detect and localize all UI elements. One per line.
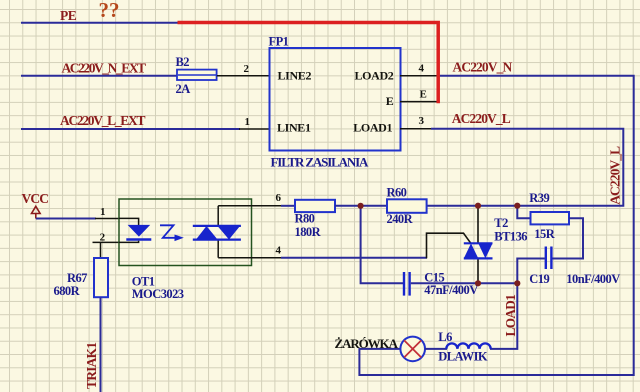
wire R80/R60 junction down to C15 (361, 206, 403, 283)
svg-text:AC220V_L_EXT: AC220V_L_EXT (60, 113, 145, 128)
wire AC220V_L (427, 129, 624, 207)
wire AC220V_N_EXT (21, 75, 178, 77)
pin 1 LINE1 (239, 128, 269, 130)
svg-text:180R: 180R (295, 225, 322, 239)
pin 1 anode (95, 218, 119, 220)
svg-text:2A: 2A (176, 82, 191, 96)
svg-text:AC220V_L: AC220V_L (452, 111, 511, 126)
svg-text:15R: 15R (534, 227, 555, 241)
svg-text:E: E (386, 94, 394, 108)
svg-text:240R: 240R (387, 212, 414, 226)
svg-text:VCC: VCC (22, 191, 49, 206)
pin 3 LOAD1 (400, 128, 433, 130)
svg-text:??: ?? (99, 0, 120, 22)
pin 4 (218, 257, 282, 259)
svg-text:C19: C19 (529, 272, 549, 286)
pin E (400, 101, 438, 103)
svg-text:3: 3 (419, 115, 425, 127)
wire R80 to R60 (335, 205, 387, 207)
filter module FP1 (270, 48, 401, 151)
svg-text:AC220V_L: AC220V_L (608, 146, 623, 205)
lamp ZAROWKA (400, 337, 425, 362)
svg-text:DLAWIK: DLAWIK (438, 350, 488, 364)
svg-text:FILTR ZASILANIA: FILTR ZASILANIA (271, 154, 370, 169)
svg-text:680R: 680R (54, 284, 81, 298)
triac T2 (427, 206, 493, 284)
svg-text:2: 2 (100, 232, 106, 244)
svg-text:ŻARÓWKA: ŻARÓWKA (335, 336, 399, 351)
svg-text:E: E (420, 88, 427, 100)
svg-text:LOAD1: LOAD1 (503, 295, 518, 337)
wire C15 to LOAD1 column (411, 282, 518, 284)
svg-text:MOC3023: MOC3023 (132, 287, 184, 301)
svg-text:47nF/400V: 47nF/400V (424, 283, 478, 297)
junction dot (475, 280, 481, 286)
svg-text:AC220V_N: AC220V_N (453, 59, 513, 74)
wire rail to R39 (517, 206, 531, 219)
pin 6 (218, 205, 282, 207)
svg-text:TRIAK1: TRIAK1 (84, 342, 99, 389)
svg-text:T2: T2 (494, 216, 508, 230)
svg-text:R67: R67 (67, 271, 87, 285)
svg-text:LINE2: LINE2 (278, 69, 312, 83)
wire PE (21, 22, 178, 24)
pin 2 cathode (93, 241, 120, 243)
phototriac of OT1 (193, 206, 241, 258)
wire R39 to C19 (553, 218, 584, 258)
svg-text:PE: PE (60, 8, 77, 23)
wire VCC to opto (36, 218, 96, 220)
resistor R39 (531, 212, 570, 224)
svg-text:LOAD1: LOAD1 (353, 121, 392, 135)
optocoupler OT1 box (119, 199, 252, 266)
capacitor C15 (404, 272, 410, 296)
svg-text:FP1: FP1 (269, 34, 289, 48)
svg-text:10nF/400V: 10nF/400V (566, 272, 620, 286)
fuse B2 (177, 70, 217, 80)
svg-text:LINE1: LINE1 (277, 121, 311, 135)
svg-text:B2: B2 (176, 55, 190, 69)
svg-text:4: 4 (419, 62, 425, 74)
resistor R67 (94, 258, 108, 297)
svg-text:R80: R80 (295, 211, 315, 225)
svg-text:R60: R60 (387, 185, 407, 199)
capacitor C19 (546, 247, 552, 270)
junction dot (475, 203, 481, 209)
svg-text:4: 4 (276, 244, 282, 256)
svg-text:R39: R39 (529, 191, 549, 205)
junction dot (514, 203, 520, 209)
inductor L6 (446, 343, 490, 349)
pin 2 LINE2 (217, 75, 269, 77)
svg-text:1: 1 (100, 206, 106, 218)
wire AC220V_N (to lamp return) (359, 76, 633, 375)
svg-text:6: 6 (276, 192, 282, 204)
wire PE (thick red) (178, 23, 439, 104)
wire AC220V_L_EXT (21, 128, 240, 130)
junction dot (358, 203, 364, 209)
svg-text:AC220V_N_EXT: AC220V_N_EXT (62, 61, 147, 76)
LED of OT1 (119, 218, 151, 242)
wire lamp to L6 (425, 348, 447, 350)
svg-text:LOAD2: LOAD2 (355, 69, 394, 83)
wire pin6 to R80 (281, 205, 295, 207)
wire LOAD1 (490, 283, 517, 349)
opto arrow (160, 225, 184, 241)
pin 4 LOAD2 (400, 75, 438, 77)
wire C19 to LOAD1 column (517, 259, 545, 284)
svg-text:1: 1 (245, 116, 251, 128)
svg-text:L6: L6 (438, 330, 452, 344)
wire cathode to R67 (100, 242, 102, 258)
resistor R60 (387, 199, 427, 213)
svg-text:BT136: BT136 (494, 229, 527, 243)
svg-text:2: 2 (244, 63, 250, 75)
wire opto pin4 to gate (281, 257, 427, 259)
resistor R80 (295, 200, 335, 212)
wire TRIAK1 (100, 297, 102, 392)
power port VCC (32, 206, 41, 218)
junction dot (514, 280, 520, 286)
